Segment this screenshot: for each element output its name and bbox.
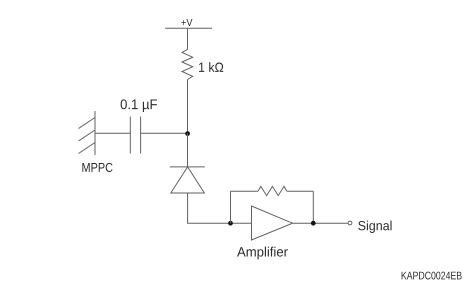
power rail +V (165, 27, 212, 29)
node A junction dot (185, 131, 190, 136)
wire C1 to node A (141, 132, 188, 134)
wire MPPC to C1 (95, 132, 130, 134)
wire rail to R1 (187, 28, 189, 49)
Amplifier label (237, 247, 288, 260)
capacitor C1 (130, 117, 140, 154)
wire feedback top right (287, 190, 314, 192)
wire R1 to node A (187, 80, 189, 134)
resistor R1 (182, 49, 193, 79)
wire U1 output (293, 222, 349, 224)
Signal label (358, 221, 391, 233)
diode D1 cathode bar (170, 166, 205, 168)
signal output terminal (348, 221, 352, 225)
wire node A to D1 (187, 133, 189, 167)
MPPC label (82, 163, 112, 172)
wire feedback top left (231, 190, 259, 192)
node C junction dot (311, 221, 316, 226)
diode D1 triangle (171, 167, 205, 193)
wire feedback right riser (312, 191, 314, 223)
op-amp U1 amplifier triangle (252, 206, 293, 240)
node B junction dot (228, 221, 233, 226)
wire D1 to amplifier input (188, 193, 252, 223)
value label 1 kOhm (199, 62, 223, 72)
MPPC terminal symbol (79, 111, 96, 155)
wire feedback left riser (230, 191, 232, 223)
node +V label (181, 19, 192, 26)
value label 0.1 uF (121, 99, 157, 112)
resistor R2 feedback (258, 186, 287, 195)
